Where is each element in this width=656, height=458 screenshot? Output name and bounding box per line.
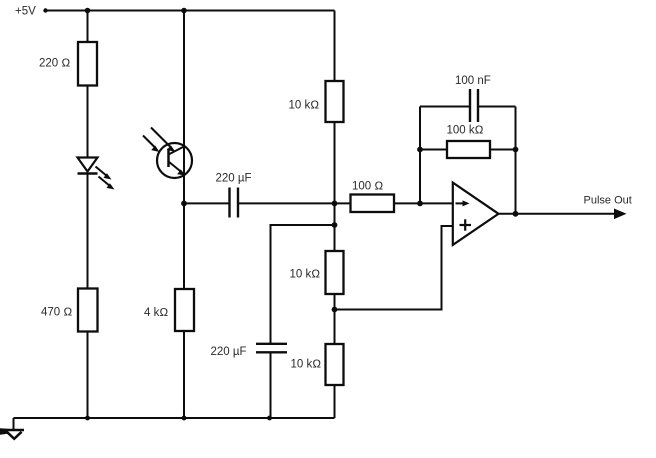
wire C2 branch vertical — [270, 224, 272, 343]
wire R2 to ground rail — [87, 332, 89, 419]
LED emission arrow 1 — [96, 167, 108, 177]
svg-text:Pulse Out: Pulse Out — [584, 195, 632, 207]
wire R1 to LED — [87, 86, 89, 158]
wire C2 branch horizontal — [271, 224, 335, 226]
op-amp - input arrow — [456, 202, 465, 204]
wire + input horizontal — [335, 309, 442, 311]
wire rail corner down to R4 — [334, 11, 336, 82]
wire LED to R2 — [87, 174, 89, 289]
svg-text:10 kΩ: 10 kΩ — [291, 359, 322, 371]
node junction mid wire / divider column — [332, 201, 338, 207]
node junction ground / phototransistor branch — [182, 416, 187, 421]
wire C1 to R7 — [239, 202, 351, 204]
node junction to op-amp + input — [332, 307, 338, 313]
wire rail down to phototransistor — [183, 11, 185, 290]
ground symbol — [13, 418, 15, 430]
wire R6 to ground rail — [334, 385, 336, 418]
wire feedback top left — [420, 106, 469, 108]
svg-text:220 µF: 220 µF — [211, 346, 247, 358]
capacitor C3 100 nF — [469, 89, 471, 122]
capacitor C1 220 uF — [228, 188, 230, 218]
light arrow 2 into Q1 — [143, 136, 155, 148]
svg-text:100 Ω: 100 Ω — [352, 181, 383, 193]
svg-text:470 Ω: 470 Ω — [41, 307, 72, 319]
LED D1 — [78, 158, 98, 172]
resistor R7 100 ohm — [351, 195, 395, 213]
svg-text:4 kΩ: 4 kΩ — [144, 307, 168, 319]
node junction lower wire — [332, 222, 338, 228]
svg-text:10 kΩ: 10 kΩ — [290, 269, 321, 281]
wire R7 to op-amp - input — [394, 202, 453, 204]
wire + input vertical — [441, 225, 443, 311]
wire + input stub — [441, 225, 453, 227]
node junction feedback / - input — [417, 201, 423, 207]
wire emitter node to C1 — [184, 202, 229, 204]
light arrow 1 into Q1 — [151, 128, 170, 147]
node rail start dot — [43, 8, 47, 12]
wire R8 right — [490, 149, 516, 151]
node junction ground / LED branch — [85, 416, 90, 421]
wire to R8 left — [420, 149, 447, 151]
wire R4 to R5 — [334, 122, 336, 251]
wire ground rail — [14, 417, 335, 419]
node junction top rail / LED branch — [85, 8, 91, 14]
resistor R6 10 kohm — [326, 344, 344, 385]
op-amp + symbol — [460, 224, 472, 226]
node emitter junction — [181, 201, 187, 207]
resistor R8 100 kohm — [447, 141, 490, 158]
svg-text:10 kΩ: 10 kΩ — [289, 100, 320, 112]
svg-text:+5V: +5V — [15, 6, 36, 18]
node junction feedback resistor right — [513, 147, 519, 153]
node junction feedback resistor left — [417, 147, 423, 153]
node junction ground / C2 branch — [267, 416, 272, 421]
wire R5 to R6 — [334, 294, 336, 344]
wire C2 to ground rail — [270, 353, 272, 418]
LED emission arrow 2 — [99, 177, 111, 187]
phototransistor Q1 — [157, 143, 192, 178]
resistor R1 220 ohm — [78, 42, 97, 86]
svg-text:220 Ω: 220 Ω — [39, 58, 70, 70]
node junction top rail / phototransistor branch — [181, 8, 187, 14]
node output arrowhead — [614, 209, 627, 220]
wire from rail down to R1 — [87, 11, 89, 43]
svg-text:220 µF: 220 µF — [216, 173, 252, 185]
wire R3 to ground rail — [183, 331, 185, 418]
resistor R5 10 kohm — [326, 251, 344, 294]
capacitor C2 220 uF — [256, 343, 287, 345]
wire top +5V rail — [44, 10, 335, 12]
wire feedback left vertical — [419, 107, 421, 204]
wire op-amp output — [499, 213, 617, 215]
resistor R4 10 kohm — [326, 81, 344, 122]
wire feedback top right — [479, 106, 516, 108]
op-amp U1 — [453, 183, 499, 245]
svg-text:100 nF: 100 nF — [455, 75, 491, 87]
resistor R3 4 kohm — [175, 289, 194, 331]
resistor R2 470 ohm — [78, 289, 98, 332]
wire feedback right vertical — [515, 107, 517, 214]
node junction output / feedback — [513, 211, 519, 217]
svg-text:100 kΩ: 100 kΩ — [447, 125, 484, 137]
